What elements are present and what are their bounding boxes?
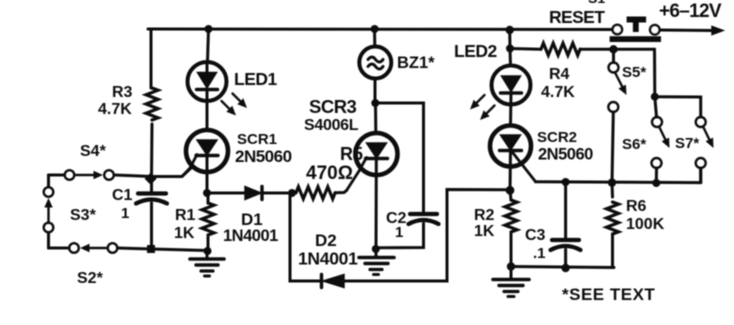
svg-text:R2: R2	[474, 207, 495, 224]
svg-text:C1: C1	[112, 187, 133, 204]
svg-text:R4: R4	[549, 66, 570, 83]
svg-text:BZ1*: BZ1*	[397, 54, 435, 72]
svg-text:470Ω: 470Ω	[306, 163, 353, 184]
svg-text:1K: 1K	[474, 223, 495, 240]
svg-text:S4*: S4*	[80, 143, 107, 160]
svg-text:1N4001: 1N4001	[298, 249, 358, 269]
svg-text:S2*: S2*	[77, 270, 104, 287]
svg-text:LED1: LED1	[234, 69, 278, 89]
svg-text:4.7K: 4.7K	[98, 101, 132, 118]
svg-text:S3*: S3*	[70, 207, 97, 224]
svg-text:S6*: S6*	[622, 136, 646, 153]
svg-text:RESET: RESET	[549, 7, 605, 27]
svg-text:S1: S1	[588, 0, 605, 6]
svg-text:2N5060: 2N5060	[235, 147, 292, 166]
svg-text:S5*: S5*	[622, 64, 646, 81]
svg-text:S4006L: S4006L	[304, 117, 359, 134]
svg-text:R3: R3	[112, 84, 133, 101]
svg-text:1: 1	[121, 205, 129, 222]
svg-text:R5: R5	[340, 144, 363, 164]
svg-text:1N4001: 1N4001	[223, 227, 278, 245]
svg-text:SCR3: SCR3	[309, 96, 357, 117]
svg-text:4.7K: 4.7K	[541, 84, 575, 101]
svg-text:LED2: LED2	[454, 41, 498, 61]
svg-text:R6: R6	[626, 198, 647, 215]
svg-text:D2: D2	[315, 231, 337, 250]
svg-text:SCR1: SCR1	[237, 131, 277, 148]
svg-text:+6–12V: +6–12V	[659, 1, 722, 22]
svg-text:.1: .1	[533, 245, 546, 262]
svg-text:1K: 1K	[174, 225, 195, 242]
svg-text:R1: R1	[175, 207, 196, 224]
svg-text:2N5060: 2N5060	[538, 146, 593, 164]
svg-text:C3: C3	[525, 227, 546, 244]
svg-text:SCR2: SCR2	[537, 129, 577, 146]
svg-text:*SEE TEXT: *SEE TEXT	[562, 285, 655, 304]
svg-text:100K: 100K	[626, 216, 665, 233]
svg-text:S7*: S7*	[675, 135, 699, 152]
svg-text:1: 1	[395, 224, 403, 241]
